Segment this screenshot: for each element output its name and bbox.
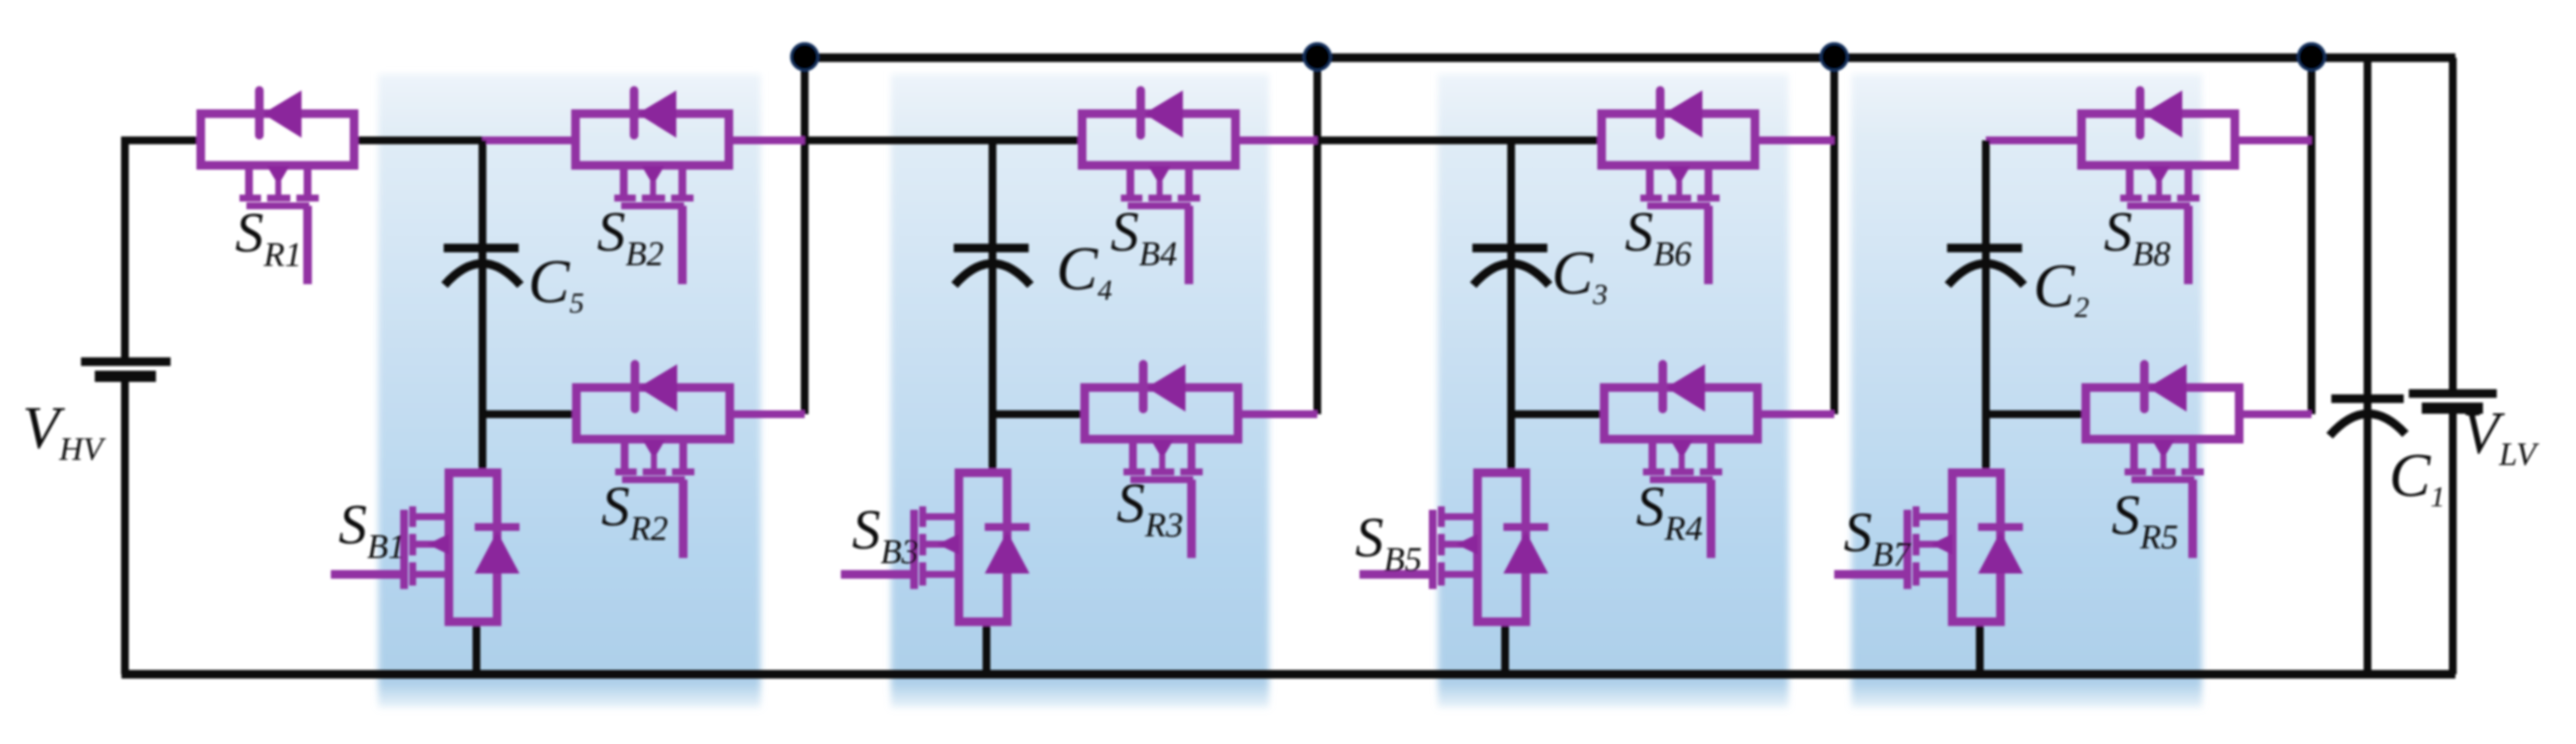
- wire: cell4 top feed: [1986, 137, 2086, 145]
- svg-text:SB5: SB5: [1355, 506, 1422, 579]
- svg-text:VLV: VLV: [2462, 400, 2539, 473]
- node junction dot x=1529: [1304, 44, 1331, 71]
- wire: cell2 mid feed: [992, 411, 1089, 418]
- svg-text:C1: C1: [2389, 441, 2445, 513]
- wire: V_HV left branch: [125, 140, 201, 674]
- transistor S_B3: [959, 473, 1007, 622]
- wire: cell3 top feed: [1317, 137, 1606, 145]
- transistor S_B7: [1952, 473, 2000, 622]
- wire: cell4 mid feed: [1986, 411, 2090, 418]
- wire: bottom rail: [121, 670, 2455, 679]
- wire: S_B2 output to node: [729, 137, 805, 145]
- wire: cell4 capacitor branch vertical: [1982, 140, 1990, 473]
- cell 3 highlight panel: [1438, 74, 1789, 708]
- wire: C1 branch: [2364, 58, 2372, 674]
- transistor S_B2: [576, 114, 729, 165]
- transistor S_R5: [2086, 387, 2239, 439]
- cell 2 highlight panel: [891, 74, 1269, 708]
- capacitor C3 curved plate: [1473, 263, 1549, 285]
- transistor S_R3: [1085, 387, 1238, 439]
- wire: cell4 bottom switch to bottom rail: [1976, 622, 1984, 674]
- capacitor C5 curved plate: [445, 263, 520, 285]
- wire: cell2 bottom switch to bottom rail: [983, 622, 991, 674]
- wire: S_B4 output to node: [1235, 137, 1317, 145]
- transistor S_R2: [576, 387, 730, 439]
- wire: V_LV branch: [2449, 58, 2457, 674]
- wire: cell3 capacitor branch vertical: [1508, 140, 1515, 473]
- node junction dot x=2129: [1821, 44, 1848, 71]
- battery V_LV long plate: [2409, 389, 2497, 398]
- capacitor C2 plate: [1947, 244, 2022, 252]
- wire: cell1 bottom switch to bottom rail: [473, 622, 481, 674]
- node junction dot x=934: [792, 44, 818, 71]
- wire: cell3 output vertical: [1831, 58, 1839, 414]
- wire: cell1 mid feed: [482, 411, 581, 418]
- wire: S_R2 output to node: [730, 411, 805, 418]
- node junction dot x=2683: [2299, 44, 2325, 71]
- cell 4 highlight panel: [1851, 74, 2202, 708]
- transistor S_B4: [1082, 114, 1235, 165]
- transistor S_R1: [201, 114, 354, 165]
- capacitor C2 curved plate: [1948, 263, 2024, 285]
- wire: cell1 top feed: [354, 137, 487, 145]
- battery V_HV long plate: [81, 357, 171, 366]
- capacitor C4 curved plate: [955, 263, 1030, 285]
- capacitor C3 plate: [1472, 244, 1547, 252]
- wire: cell3 mid feed: [1511, 411, 1608, 418]
- wire: cell2 output vertical: [1314, 58, 1322, 414]
- transistor S_B1: [449, 473, 497, 622]
- wire: S_R3 output to node: [1238, 411, 1317, 418]
- wire: cell1 output vertical: [801, 58, 809, 414]
- wire: top rail: [805, 53, 2455, 62]
- wire: S_B8 output to node: [2235, 137, 2312, 145]
- capacitor C1 curved plate: [2330, 413, 2405, 436]
- wire: cell1 capacitor branch vertical: [479, 140, 487, 473]
- battery V_LV short plate: [2422, 403, 2483, 414]
- transistor S_R4: [1604, 387, 1758, 439]
- capacitor C1 plate: [2331, 394, 2404, 403]
- battery V_HV short plate: [95, 371, 156, 382]
- transistor S_B8: [2081, 114, 2235, 165]
- wire: cell4 output vertical: [2308, 58, 2316, 414]
- wire: cell2 top feed: [805, 137, 1086, 145]
- wire: S_B6 output to node: [1755, 137, 1834, 145]
- svg-text:VHV: VHV: [22, 395, 106, 468]
- transistor S_B5: [1478, 473, 1526, 622]
- capacitor C5 plate: [444, 244, 519, 252]
- capacitor C4 plate: [954, 244, 1029, 252]
- cell 1 highlight panel: [378, 74, 761, 708]
- svg-text:SR1: SR1: [235, 201, 302, 274]
- wire: cell3 bottom switch to bottom rail: [1502, 622, 1509, 674]
- transistor S_B6: [1602, 114, 1755, 165]
- wire: S_R5 output to node: [2239, 411, 2312, 418]
- wire: cell2 capacitor branch vertical: [989, 140, 997, 473]
- wire: S_R4 output to node: [1758, 411, 1834, 418]
